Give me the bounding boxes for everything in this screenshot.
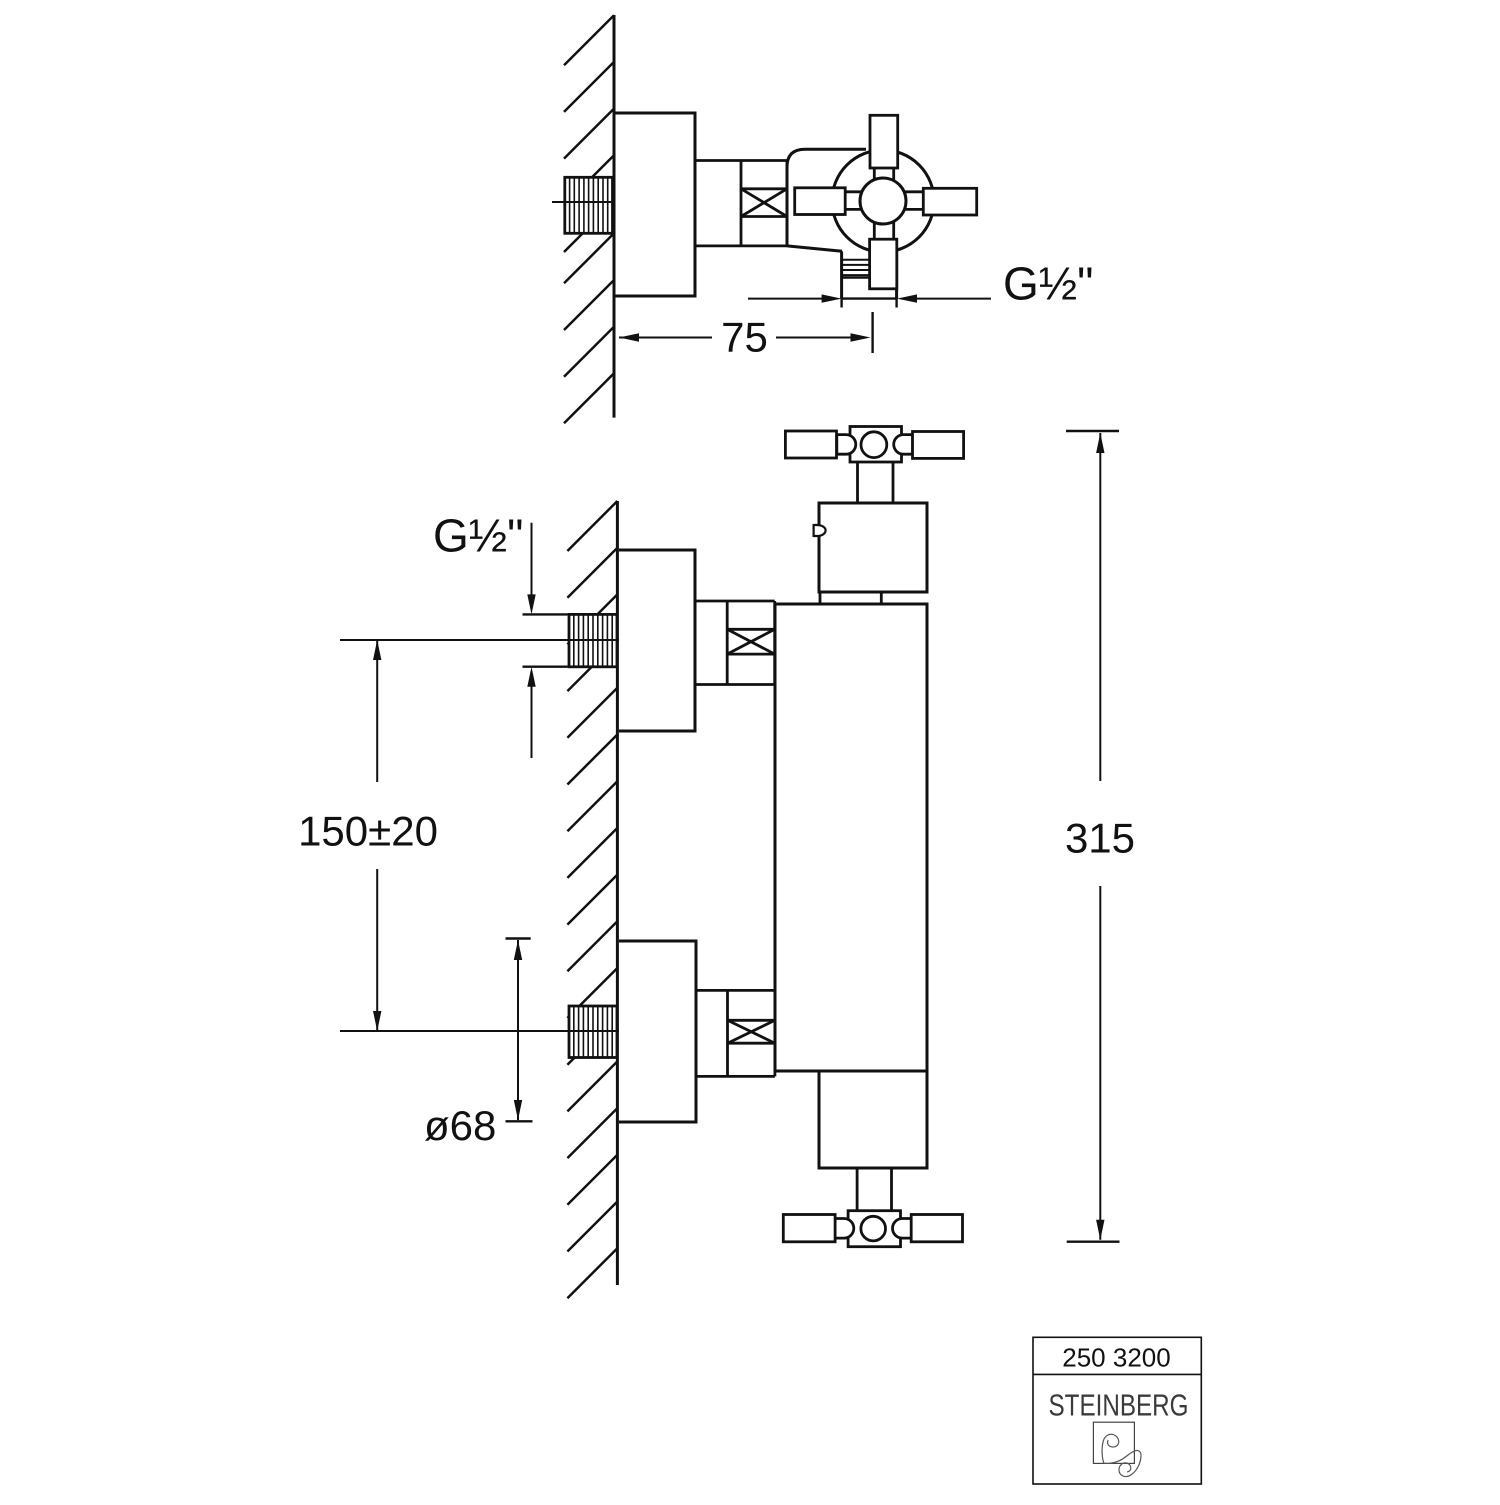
svg-text:315: 315 (1065, 815, 1135, 862)
svg-text:250 3200: 250 3200 (1062, 1343, 1170, 1373)
svg-text:G½": G½" (433, 510, 523, 562)
svg-text:ø68: ø68 (424, 1102, 496, 1149)
svg-text:STEINBERG: STEINBERG (1049, 1388, 1189, 1422)
svg-text:75: 75 (721, 313, 768, 360)
svg-text:150±20: 150±20 (298, 807, 438, 854)
svg-text:G½": G½" (1003, 257, 1093, 309)
